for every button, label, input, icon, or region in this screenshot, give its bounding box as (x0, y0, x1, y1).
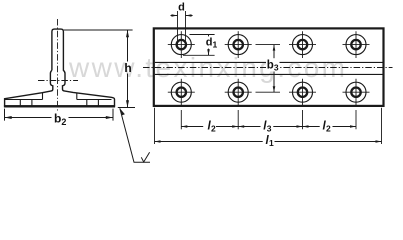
label b3 (266, 58, 280, 71)
svg-text:3: 3 (267, 123, 272, 133)
serration tick left b (31, 100, 33, 106)
svg-text:2: 2 (326, 123, 331, 133)
dimension b2: left extension line (4, 109, 6, 121)
hole H6 (225, 79, 252, 106)
surface finish leader arrow (120, 108, 125, 115)
dimension h: line lower part (127, 74, 129, 108)
dimension l2 (left): line (181, 126, 203, 128)
dimension d: line + outside arrows (171, 15, 178, 17)
hole H2 (225, 31, 252, 58)
hole H4 (343, 31, 370, 58)
plate horizontal centerline (143, 67, 393, 69)
dimension b3: line (273, 45, 275, 59)
dimension b2: arrow right (106, 116, 113, 119)
rail base bottom thick line (4, 105, 115, 107)
dimension h: arrow up (126, 30, 129, 37)
dimension l1: line (155, 141, 263, 143)
svg-text:2: 2 (211, 123, 216, 133)
horizontal centerline of web bulge (38, 80, 78, 82)
dimension l2 (right): line (303, 126, 320, 128)
hole H3 (289, 31, 316, 58)
serration tick left a (19, 100, 21, 106)
rail base serration line right (77, 99, 112, 101)
serration tick right up (76, 93, 78, 100)
serration tick right a (86, 100, 88, 106)
plate inner line lower (155, 73, 383, 75)
hole H8 (343, 79, 370, 106)
dimension b2: right extension line (112, 109, 114, 121)
label d1 (205, 36, 217, 48)
svg-text:h: h (124, 61, 131, 75)
dimension h: arrow down (126, 100, 129, 107)
vertical centerline of rail (57, 19, 59, 111)
dimension h: bottom extension line (118, 107, 135, 109)
serration tick left up (42, 93, 44, 100)
hole H7 (289, 79, 316, 106)
dimension h: top extension line (64, 29, 133, 31)
svg-text:b2: b2 (54, 112, 66, 127)
surface finish checkmark (141, 152, 149, 162)
dimension row l2 l3 l2: extension lines (180, 110, 182, 129)
hole H5 (168, 79, 195, 106)
hole H1 (168, 31, 195, 58)
rail base serration line left (5, 99, 43, 101)
dimension b2: arrow left (5, 116, 12, 119)
serration tick right b (97, 100, 99, 106)
surface finish leader line (120, 108, 150, 162)
dimension l1: extension lines (154, 108, 156, 144)
dimension b3: extension lines (256, 44, 281, 46)
svg-text:d: d (178, 1, 185, 13)
plate outline (154, 28, 384, 106)
dimension h: line upper part (127, 30, 129, 62)
dimension d1: extension lines (190, 34, 215, 36)
dimension l3: line (238, 126, 260, 128)
svg-text:1: 1 (269, 138, 274, 148)
rail profile outline (5, 29, 115, 106)
dimension d: extension lines (177, 11, 179, 45)
dimension b2: line (5, 117, 52, 119)
dimension d1: line (208, 35, 210, 37)
plate inner line upper (155, 61, 383, 63)
